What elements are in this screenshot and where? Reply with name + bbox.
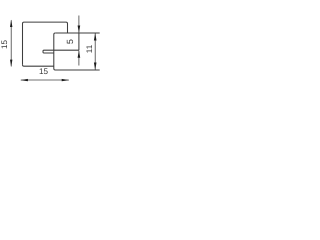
svg-text:5: 5: [65, 39, 75, 44]
svg-text:11: 11: [85, 44, 94, 53]
svg-text:15: 15: [0, 40, 9, 50]
svg-text:15: 15: [39, 67, 49, 76]
